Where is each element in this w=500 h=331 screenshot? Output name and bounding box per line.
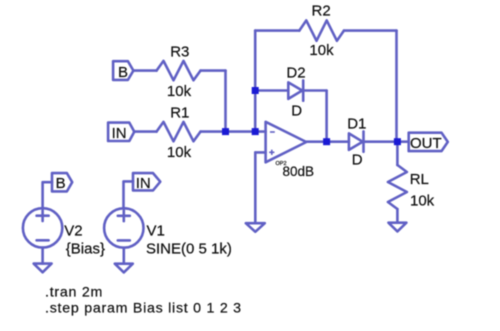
svg-text:D: D	[291, 103, 302, 120]
svg-text:10k: 10k	[410, 192, 435, 209]
svg-text:IN: IN	[136, 175, 151, 192]
svg-text:V1: V1	[147, 223, 165, 240]
svg-text:D: D	[352, 152, 363, 169]
svg-text:10k: 10k	[167, 83, 192, 100]
svg-text:SINE(0 5 1k): SINE(0 5 1k)	[146, 241, 232, 258]
svg-text:10k: 10k	[167, 144, 192, 161]
svg-text:D1: D1	[347, 115, 366, 132]
svg-text:10k: 10k	[309, 42, 334, 59]
svg-text:OP2: OP2	[276, 161, 287, 167]
svg-text:.step param Bias list 0 1 2 3: .step param Bias list 0 1 2 3	[45, 301, 242, 317]
svg-text:R1: R1	[170, 105, 189, 122]
svg-text:B: B	[118, 64, 128, 81]
svg-text:D2: D2	[286, 65, 305, 82]
svg-text:R3: R3	[170, 44, 189, 61]
svg-text:RL: RL	[410, 171, 429, 188]
svg-text:.tran 2m: .tran 2m	[45, 284, 103, 300]
svg-text:R2: R2	[312, 3, 331, 20]
svg-text:B: B	[56, 175, 66, 192]
svg-text:OUT: OUT	[410, 135, 442, 152]
svg-text:{Bias}: {Bias}	[66, 240, 105, 257]
svg-text:80dB: 80dB	[283, 164, 315, 179]
svg-text:IN: IN	[112, 125, 127, 142]
svg-text:V2: V2	[64, 223, 82, 240]
